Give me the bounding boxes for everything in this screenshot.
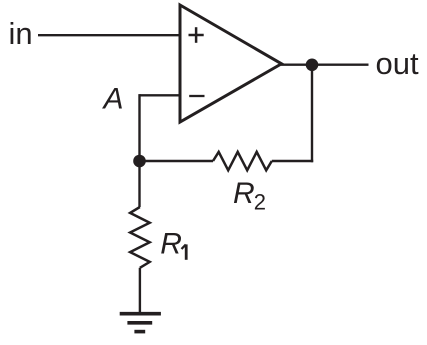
op-amp pin marking − (inverting input) xyxy=(189,95,204,97)
svg-text:in: in xyxy=(9,16,33,51)
node label "in" xyxy=(9,16,33,51)
wire: R2 right lead xyxy=(272,160,313,162)
junction dot: node A xyxy=(133,155,146,168)
svg-text:R: R xyxy=(160,228,182,261)
node label A xyxy=(102,82,124,115)
wire: R1 to ground xyxy=(139,268,141,314)
op-amp pin marking + (non-inverting input) xyxy=(189,27,204,43)
svg-text:R: R xyxy=(233,177,255,210)
resistor R2 xyxy=(213,152,272,170)
resistor R1 xyxy=(130,207,150,268)
wire: op-amp output to out xyxy=(281,63,369,65)
wire: R2 left lead to node A xyxy=(140,160,214,162)
svg-text:out: out xyxy=(376,46,419,81)
op-amp U1 triangle xyxy=(180,5,282,122)
wire: inverting input vertical segment down to node A xyxy=(138,94,140,161)
value label R1 xyxy=(160,228,186,261)
value label R2 xyxy=(233,177,266,215)
wire: inverting input horizontal segment xyxy=(140,94,181,96)
wire: node A down to R1 xyxy=(138,161,140,207)
junction dot: output node xyxy=(306,59,319,72)
wire: feedback vertical segment from output node xyxy=(311,65,313,162)
svg-text:2: 2 xyxy=(254,189,266,214)
wire: in to op-amp non-inverting input xyxy=(38,34,180,36)
svg-text:A: A xyxy=(102,82,124,115)
ground symbol xyxy=(120,314,161,332)
node label "out" xyxy=(376,46,419,81)
